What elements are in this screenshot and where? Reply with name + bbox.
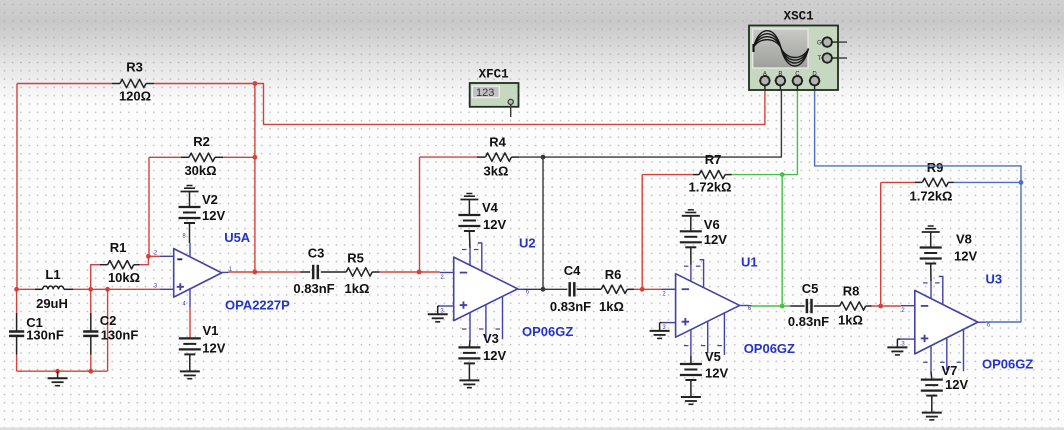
svg-text:V7: V7 xyxy=(942,363,958,378)
svg-text:R2: R2 xyxy=(193,134,210,149)
pin stubs U5A xyxy=(160,255,174,257)
battery V7 xyxy=(930,372,933,380)
svg-text:A: A xyxy=(763,71,767,77)
node green junction R7 line xyxy=(780,172,785,177)
svg-text:30kΩ: 30kΩ xyxy=(184,163,216,178)
pin stubs U2 xyxy=(440,272,454,274)
svg-text:L1: L1 xyxy=(45,267,60,282)
svg-text:V2: V2 xyxy=(202,192,218,207)
wire red net R3-left vertical xyxy=(16,84,18,290)
scope screen xyxy=(753,29,808,68)
svg-text:R9: R9 xyxy=(927,160,944,175)
battery V4 xyxy=(466,193,472,195)
svg-text:C5: C5 xyxy=(802,281,819,296)
wire black R4 to XSC1 B xyxy=(519,90,781,158)
wire green U1 output xyxy=(746,305,751,307)
svg-text:V3: V3 xyxy=(483,331,499,346)
op-amp U1 OP06GZ xyxy=(676,274,740,338)
ground main rail xyxy=(57,371,59,378)
svg-text:XFC1: XFC1 xyxy=(479,68,509,82)
wire red branch down to ground rail xyxy=(107,289,109,371)
node U1 output junction xyxy=(780,304,785,309)
node line1 right junction xyxy=(417,270,422,275)
node plus line T-branch xyxy=(105,287,110,292)
op-amp U2 OP06GZ xyxy=(454,257,518,321)
wire red U5A output line xyxy=(229,271,301,273)
svg-text:0.83nF: 0.83nF xyxy=(293,281,334,296)
svg-text:12V: 12V xyxy=(483,217,506,232)
wire red R6 to U1 xyxy=(634,288,662,290)
terminal XSC1 B xyxy=(779,81,781,90)
svg-text:R8: R8 xyxy=(843,283,860,298)
svg-text:C3: C3 xyxy=(308,246,325,261)
wire red R7 left xyxy=(642,174,693,176)
wire blue XSC1 D to U3 output xyxy=(815,90,1021,323)
svg-text:12V: 12V xyxy=(202,208,225,223)
svg-text:T: T xyxy=(817,56,821,62)
svg-text:12V: 12V xyxy=(954,249,977,264)
svg-text:12V: 12V xyxy=(945,377,968,392)
ground U1 plus input xyxy=(660,322,662,324)
svg-text:10kΩ: 10kΩ xyxy=(108,270,140,285)
wire red up to R4 xyxy=(419,157,421,272)
wire black U2 output to C4 xyxy=(524,288,567,290)
svg-text:U1: U1 xyxy=(741,255,758,270)
svg-text:OP06GZ: OP06GZ xyxy=(522,324,573,339)
svg-text:12V: 12V xyxy=(483,348,506,363)
capacitor C4 xyxy=(568,282,571,296)
capacitor C2 xyxy=(90,289,92,313)
op-amp U5A OPA2227P xyxy=(174,249,222,298)
svg-text:130nF: 130nF xyxy=(26,327,64,342)
node R4 output junction xyxy=(541,155,546,160)
resistor R6 xyxy=(601,285,627,293)
svg-text:0.83nF: 0.83nF xyxy=(550,299,591,314)
node L1 right junction xyxy=(88,287,93,292)
resistor R3 xyxy=(112,83,120,85)
svg-text:12V: 12V xyxy=(704,232,727,247)
svg-text:G: G xyxy=(817,40,822,46)
svg-text:V4: V4 xyxy=(482,200,499,215)
node R3 right junction xyxy=(253,81,258,86)
svg-text:1kΩ: 1kΩ xyxy=(599,299,624,314)
capacitor C3 xyxy=(300,271,310,273)
svg-text:R3: R3 xyxy=(126,60,143,75)
svg-text:1kΩ: 1kΩ xyxy=(838,313,863,328)
wire green down to U1 output xyxy=(781,175,783,306)
svg-text:OP06GZ: OP06GZ xyxy=(744,341,795,356)
capacitor C1 xyxy=(16,289,18,313)
svg-text:V5: V5 xyxy=(705,349,721,364)
terminal XSC1 A xyxy=(764,81,766,90)
svg-text:V6: V6 xyxy=(704,217,720,232)
node rail C2 junction xyxy=(88,369,93,374)
svg-text:U3: U3 xyxy=(986,271,1003,286)
wire XFC1 stub xyxy=(510,105,512,118)
wire red R2 line xyxy=(149,156,181,158)
node rail ground junction xyxy=(55,369,60,374)
node line2 right junction xyxy=(640,287,645,292)
svg-text:12V: 12V xyxy=(202,340,225,355)
wire blue R9 right xyxy=(954,181,1021,183)
svg-text:OPA2227P: OPA2227P xyxy=(225,298,290,313)
node line3 right junction xyxy=(878,304,883,309)
svg-text:123: 123 xyxy=(476,87,494,99)
svg-text:OP06GZ: OP06GZ xyxy=(982,356,1033,371)
capacitor C5 xyxy=(790,305,805,307)
svg-text:D: D xyxy=(812,71,817,77)
ground U2 plus input xyxy=(438,305,440,307)
op-amp U3 OP06GZ xyxy=(915,290,978,354)
node U5A output junction xyxy=(253,270,258,275)
svg-text:B: B xyxy=(778,71,782,77)
wire red up to R7 xyxy=(641,175,643,290)
svg-text:V8: V8 xyxy=(956,232,972,247)
wire red R3 top line xyxy=(17,83,112,85)
wire red R9 left xyxy=(881,181,915,183)
svg-text:1kΩ: 1kΩ xyxy=(345,281,370,296)
svg-text:C2: C2 xyxy=(100,313,117,328)
resistor R1 xyxy=(100,264,108,266)
svg-text:R1: R1 xyxy=(110,240,127,255)
wire red R8 to U3 xyxy=(872,305,901,307)
terminal XSC1 C xyxy=(796,81,798,90)
svg-text:1.72kΩ: 1.72kΩ xyxy=(689,180,732,195)
svg-text:R6: R6 xyxy=(605,267,622,282)
battery V8 xyxy=(928,225,934,227)
battery V2 xyxy=(187,185,193,187)
node R9 blue junction xyxy=(1019,180,1024,185)
resistor R9 xyxy=(915,181,923,183)
wire black down to U2 output xyxy=(542,157,544,289)
resistor R7 xyxy=(693,174,699,176)
resistor R5 xyxy=(346,268,372,276)
svg-text:C: C xyxy=(795,71,800,77)
terminal XFC1 xyxy=(508,99,513,104)
node R2 right junction xyxy=(253,155,258,160)
battery V6 xyxy=(688,209,694,211)
wire red R5 to U2 xyxy=(380,271,440,273)
svg-text:C4: C4 xyxy=(564,263,581,278)
battery V5 xyxy=(690,356,692,364)
wire T stub xyxy=(838,57,847,59)
svg-text:R7: R7 xyxy=(705,152,722,167)
svg-text:12V: 12V xyxy=(705,366,728,381)
node U2 output junction xyxy=(541,287,546,292)
svg-text:V1: V1 xyxy=(203,323,219,338)
svg-text:1.72kΩ: 1.72kΩ xyxy=(910,188,953,203)
wire green R7 to XSC1 C xyxy=(732,90,798,175)
wire red R4 left xyxy=(420,156,478,158)
svg-text:R5: R5 xyxy=(347,251,364,266)
pin stubs U1 xyxy=(662,288,676,290)
svg-text:0.83nF: 0.83nF xyxy=(788,314,829,329)
battery V3 xyxy=(468,340,471,347)
resistor R8 xyxy=(840,302,866,310)
node L1 left junction xyxy=(14,287,19,292)
scope waveform xyxy=(754,31,809,66)
terminal XSC1 G xyxy=(827,41,838,43)
svg-text:XSC1: XSC1 xyxy=(784,10,814,24)
wire red R1 leads xyxy=(91,265,100,290)
wire red vertical R3-R2-output xyxy=(254,84,256,273)
resistor R2 xyxy=(189,153,215,161)
inductor L1 xyxy=(35,288,43,290)
wire red R2 left down to minus node xyxy=(148,157,150,256)
svg-text:130nF: 130nF xyxy=(101,327,139,342)
terminal XSC1 D xyxy=(814,81,816,90)
wire red up to R9 xyxy=(880,182,882,306)
wire G stub xyxy=(838,41,847,43)
node U5A minus junction xyxy=(146,254,151,259)
wire red feedback to XSC1 A xyxy=(255,84,765,125)
terminal XSC1 T xyxy=(827,57,838,59)
ground U3 plus input xyxy=(897,338,900,340)
resistor R4 xyxy=(477,156,485,158)
svg-text:29uH: 29uH xyxy=(36,296,68,311)
battery V1 xyxy=(189,307,191,338)
svg-text:U5A: U5A xyxy=(224,230,251,245)
svg-text:3kΩ: 3kΩ xyxy=(484,163,509,178)
pin stubs U3 xyxy=(901,305,915,307)
wire red plus-input line with L1 xyxy=(17,288,35,290)
svg-text:U2: U2 xyxy=(519,235,536,250)
wire red bottom ground rail xyxy=(17,370,108,372)
svg-text:120Ω: 120Ω xyxy=(119,88,151,103)
svg-text:R4: R4 xyxy=(489,135,506,150)
